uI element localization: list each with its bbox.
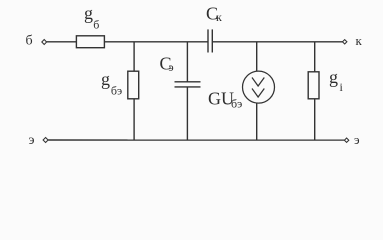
resistor g_б xyxy=(76,36,104,48)
wire g_бэ to bottom rail xyxy=(133,99,135,140)
wire current source to bottom rail xyxy=(256,103,258,140)
resistor g_бэ xyxy=(128,71,139,99)
current source GU_бэ (circle) xyxy=(243,71,275,103)
svg-text:б: б xyxy=(93,17,99,31)
svg-text:э: э xyxy=(169,60,174,74)
wire branch to g_бэ (top) xyxy=(133,42,135,72)
bottom rail wire э to э xyxy=(48,139,344,141)
current source arrow chevron 1 xyxy=(252,78,264,87)
wire branch to current source (top) xyxy=(256,42,258,72)
wire C_э to bottom rail xyxy=(186,87,188,140)
wire branch to C_э (top) xyxy=(186,42,188,82)
svg-text:бэ: бэ xyxy=(111,84,122,98)
svg-text:э: э xyxy=(29,133,35,148)
svg-text:g: g xyxy=(101,69,110,89)
terminal diamond б xyxy=(42,40,47,45)
svg-text:g: g xyxy=(84,3,93,23)
wire б to g_б xyxy=(47,41,77,43)
svg-text:б: б xyxy=(26,33,33,48)
capacitor C_э xyxy=(175,81,201,83)
terminal diamond э (right) xyxy=(344,138,348,142)
wire g_б to C_к xyxy=(105,41,208,43)
svg-text:к: к xyxy=(216,10,222,24)
current source arrow chevron 2 xyxy=(252,89,264,98)
wire C_к to к xyxy=(212,41,342,43)
capacitor C_к xyxy=(207,29,209,52)
svg-text:бэ: бэ xyxy=(231,97,242,111)
wire branch to g_i (top) xyxy=(314,42,316,72)
svg-text:к: к xyxy=(356,33,363,48)
wire g_i to bottom rail xyxy=(314,99,316,140)
svg-text:э: э xyxy=(354,132,360,147)
resistor g_i xyxy=(308,72,319,99)
terminal diamond к xyxy=(343,40,347,44)
terminal diamond э (left) xyxy=(43,138,48,143)
svg-text:g: g xyxy=(329,67,338,87)
